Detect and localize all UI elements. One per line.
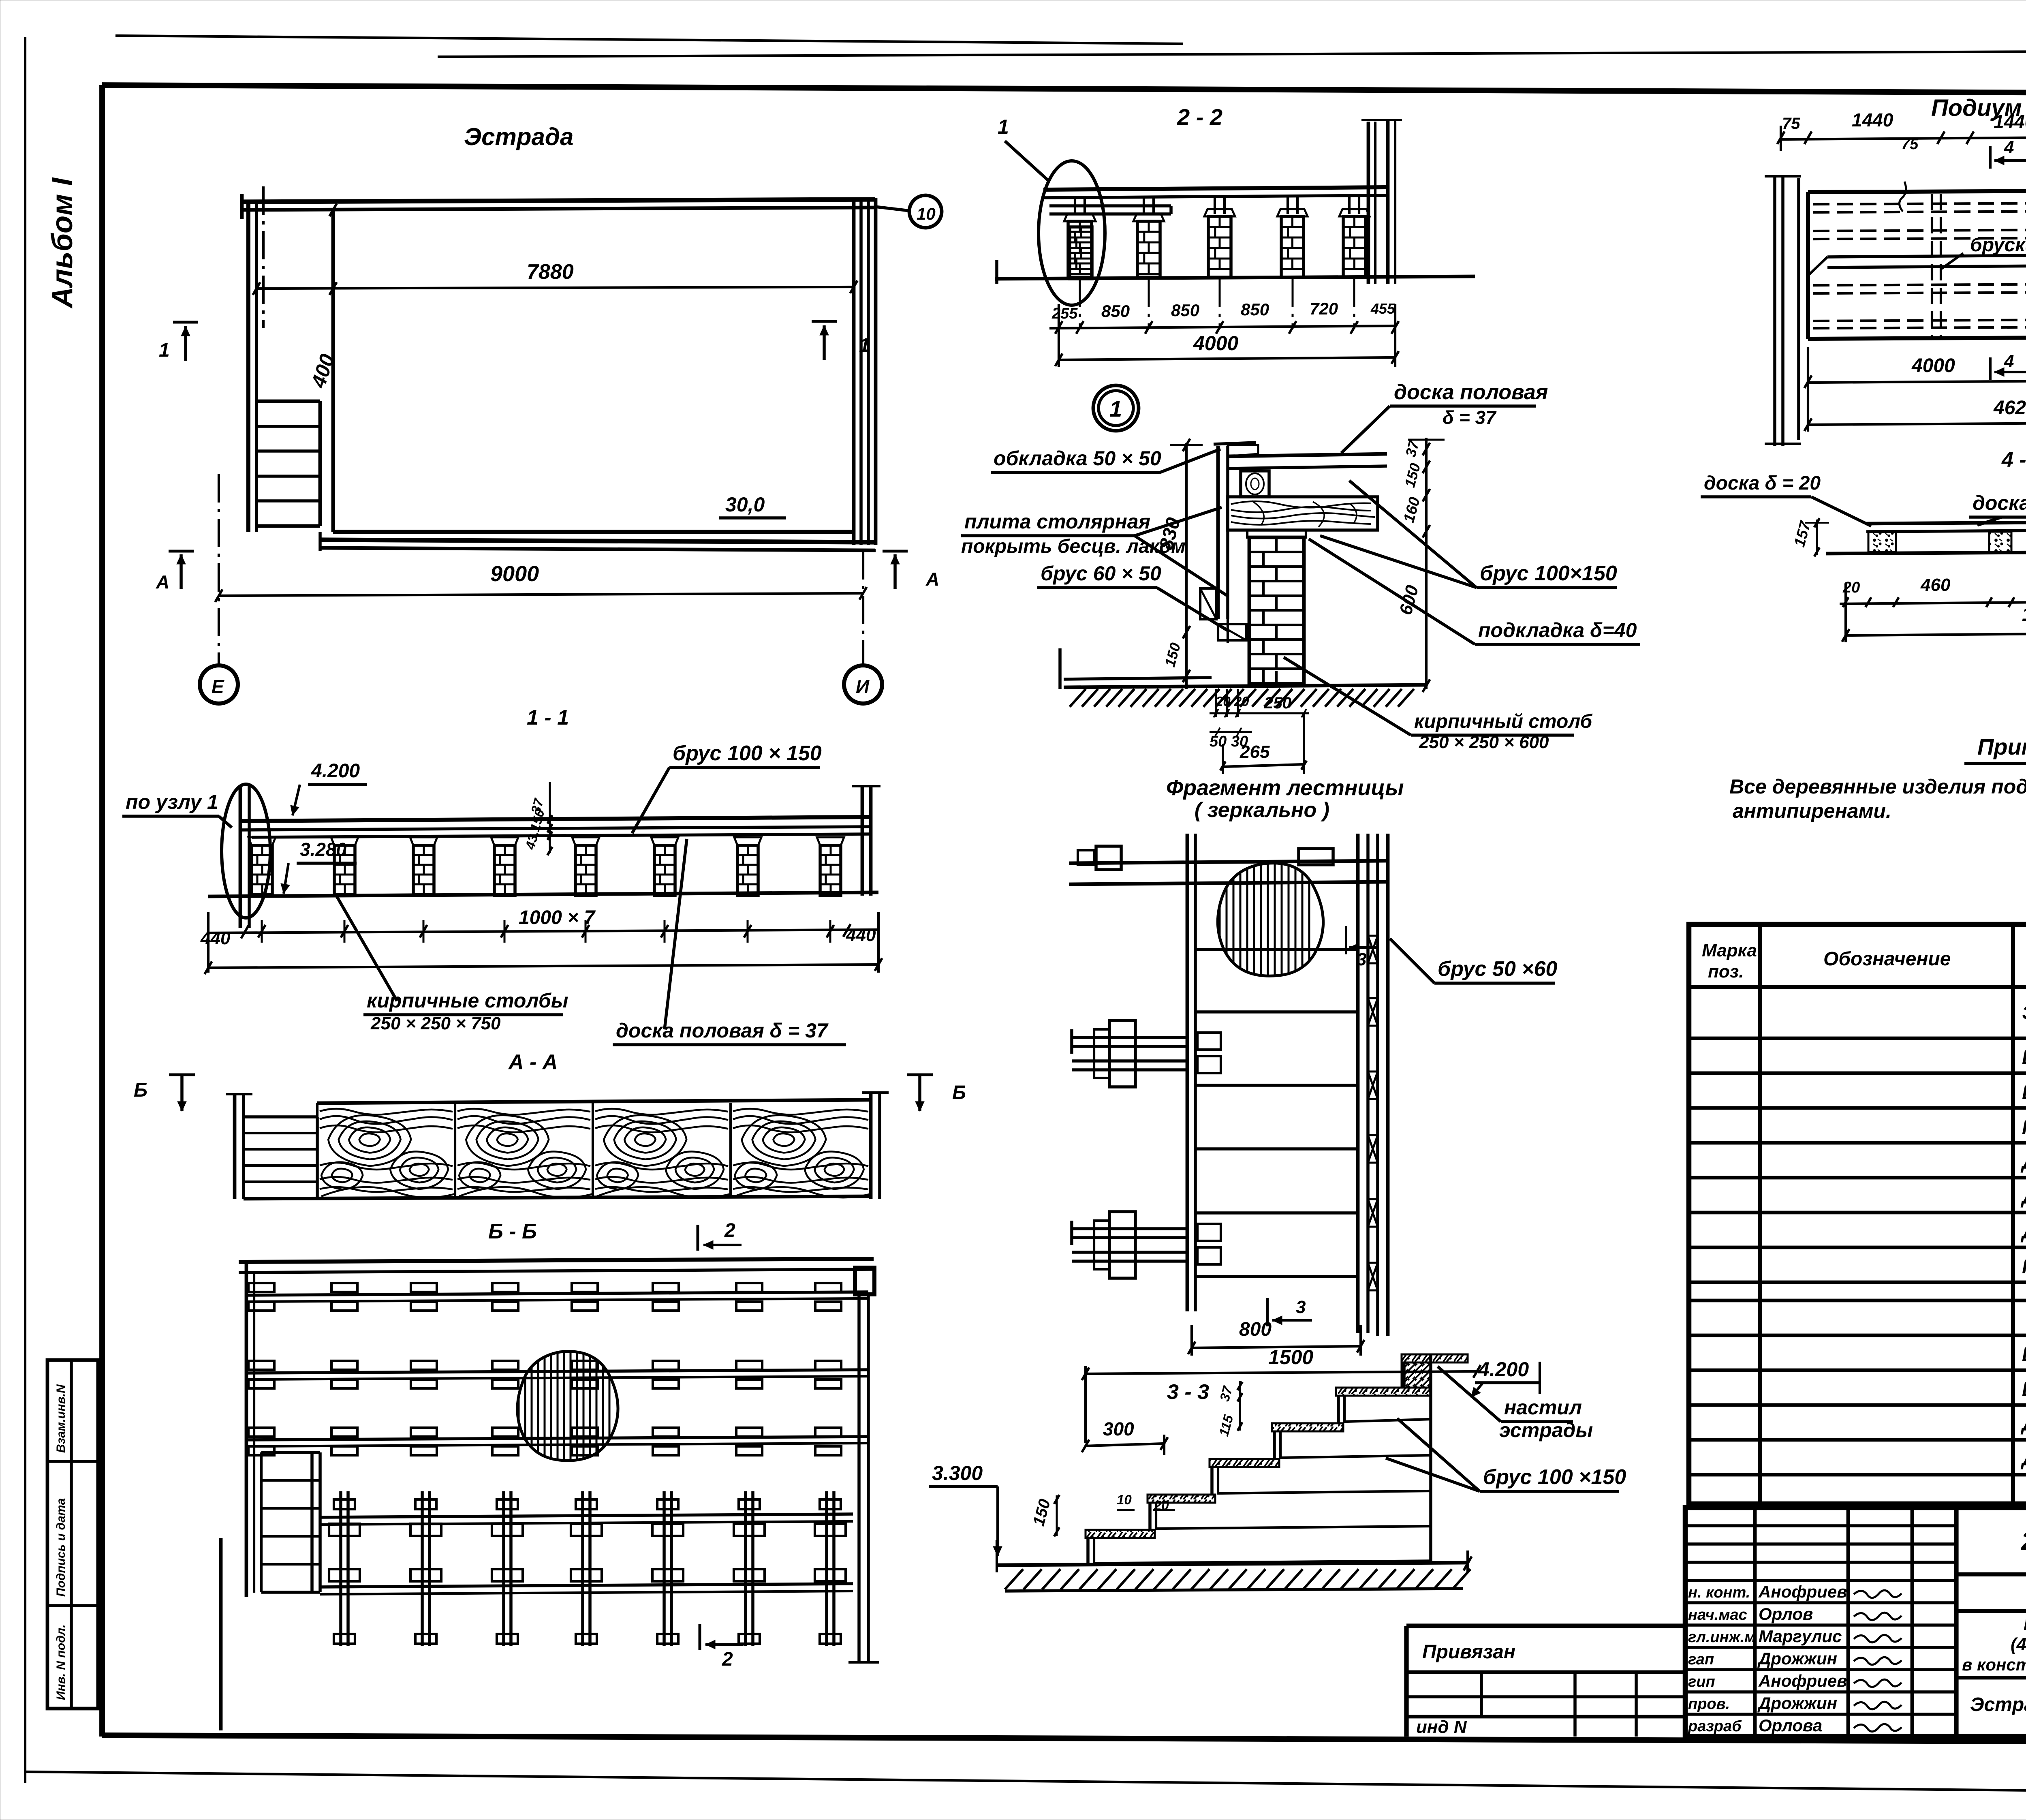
B-B left lower post [219, 1538, 223, 1730]
svg-text:Анофриев: Анофриев [1758, 1671, 1847, 1690]
svg-text:Эстрада актового зала: Эстрада актового зала [2022, 1002, 2026, 1024]
svg-text:4620: 4620 [1993, 397, 2026, 419]
svg-text:Обозначение: Обозначение [1823, 948, 1951, 970]
fragment top beam with bolts [1069, 861, 1388, 863]
4-4 dim 1750 [1846, 632, 2026, 635]
2-2 secondary beam left [1049, 204, 1171, 207]
brick pier [1070, 227, 1092, 279]
section mark 1 left [173, 321, 198, 324]
3-3 dim 300 [1086, 1444, 1164, 1446]
svg-text:850: 850 [1241, 300, 1269, 319]
title block signature columns [1753, 1508, 1757, 1737]
brick pier [1343, 216, 1366, 277]
svg-text:255: 255 [1051, 305, 1078, 322]
podium break marks top [1899, 182, 1906, 212]
svg-text:И: И [856, 676, 870, 697]
svg-text:1: 1 [998, 115, 1009, 138]
A-A wood band outline [317, 1100, 871, 1103]
svg-text:4 - 4: 4 - 4 [2001, 448, 2026, 472]
svg-text:Брус 75 × 100: Брус 75 × 100 [2022, 1379, 2026, 1400]
dim 9000 [219, 593, 863, 596]
svg-text:брус 50 ×60: брус 50 ×60 [1438, 957, 1557, 981]
A-A right post [869, 1093, 873, 1199]
svg-text:Фрагмент лестницы: Фрагмент лестницы [1166, 776, 1404, 800]
brick pier [1137, 221, 1160, 277]
node1 brick pillar [1249, 537, 1304, 686]
1-1 right post [861, 786, 864, 896]
svg-text:440: 440 [846, 925, 876, 945]
1-1 dim row meter ticks [208, 930, 878, 933]
svg-text:антипиренами.: антипиренами. [1733, 800, 1891, 822]
svg-text:4: 4 [2004, 351, 2014, 371]
svg-text:1: 1 [159, 340, 170, 361]
svg-text:10: 10 [917, 204, 936, 223]
svg-text:эстрады: эстрады [1499, 1419, 1593, 1441]
svg-text:А - А: А - А [508, 1050, 558, 1074]
3-3 right wall and top block [1429, 1354, 1432, 1561]
svg-text:( зеркально ): ( зеркально ) [1195, 798, 1329, 822]
outer thin sheet border [115, 36, 1183, 44]
podium dashed verticals [1931, 194, 1933, 338]
brick pier [1208, 216, 1231, 277]
svg-text:Орлова: Орлова [1759, 1716, 1822, 1735]
podium plan outline trapezoid [1808, 190, 2026, 192]
podium dim 4620 [1808, 422, 2026, 425]
fragment bottom 3 marker [1266, 1298, 1269, 1326]
svg-text:4.200: 4.200 [311, 760, 360, 782]
B-B right post top block [855, 1268, 874, 1294]
svg-text:настил: настил [1504, 1396, 1582, 1419]
svg-text:Инв. N подл.: Инв. N подл. [54, 1624, 68, 1700]
fragment treads [1195, 948, 1358, 951]
stage plan right column wall [852, 198, 856, 545]
svg-text:Эстрада актового зала.: Эстрада актового зала. [1970, 1694, 2026, 1715]
spec table header row line [1689, 985, 2026, 989]
brick pier [1281, 216, 1304, 277]
left wall axis dash-dot [262, 186, 265, 328]
svg-text:Альбом I: Альбом I [46, 177, 79, 309]
stage plan top edge double line [242, 199, 875, 202]
svg-text:брус 60 × 50: брус 60 × 50 [1041, 562, 1161, 585]
svg-text:гап: гап [1688, 1651, 1714, 1668]
svg-text:460: 460 [1920, 575, 1951, 595]
svg-text:1: 1 [859, 335, 870, 356]
svg-text:2 - 2: 2 - 2 [1177, 104, 1222, 130]
node1 small block with grain [1241, 471, 1269, 497]
A-A stairs side block [244, 1115, 317, 1119]
svg-text:по узлу 1: по узлу 1 [126, 791, 218, 813]
svg-text:н. конт.: н. конт. [1688, 1584, 1750, 1601]
svg-text:подкладка δ=40: подкладка δ=40 [1478, 619, 1637, 642]
svg-text:2: 2 [724, 1220, 735, 1241]
spec table outline [1689, 924, 2026, 1504]
fragment right stringers [1356, 834, 1360, 1333]
4-4 bottom line [1826, 551, 2026, 554]
svg-text:Примечание.: Примечание. [1977, 734, 2026, 759]
svg-text:Плита столярная: Плита столярная [2022, 1117, 2026, 1138]
B-B right wall double [857, 1294, 861, 1662]
svg-text:4000: 4000 [1911, 355, 1955, 376]
svg-text:850: 850 [1171, 301, 1199, 320]
svg-text:доска половая δ = 37: доска половая δ = 37 [1973, 492, 2026, 514]
1-1 node ellipse left [222, 784, 270, 918]
svg-text:Эстрада: Эстрада [464, 123, 573, 150]
svg-text:в конструкциях серии 1.020-1/8: в конструкциях серии 1.020-1/83 [1962, 1655, 2026, 1674]
3-3 ground with hatch [997, 1563, 1468, 1565]
svg-text:3.280: 3.280 [300, 839, 347, 860]
3-3 dims 115/37 rotated [1239, 1381, 1241, 1431]
svg-text:поз.: поз. [1708, 962, 1744, 982]
2-2 dim 4000 [1059, 357, 1395, 360]
section mark A left bottom [180, 554, 183, 589]
svg-text:А: А [925, 569, 939, 590]
B-B stairs block [261, 1451, 320, 1454]
1-1 ground line [208, 892, 878, 896]
left attribute boxes [47, 1360, 98, 1709]
1-1 overall dim row [208, 965, 878, 968]
brick pier [1068, 221, 1092, 277]
node 1 callout circle [1093, 385, 1139, 431]
svg-text:Е: Е [212, 676, 224, 697]
svg-text:Все деревянные изделия: Все деревянные изделия подлежат пропитке [1729, 775, 2026, 798]
4-4 dim row 20/460/480/410 [1840, 601, 2026, 604]
svg-text:440: 440 [200, 928, 231, 948]
node1 plita wood grain [1228, 497, 1378, 530]
svg-text:3 - 3: 3 - 3 [1167, 1380, 1209, 1404]
svg-text:плита столярная: плита столярная [964, 510, 1150, 533]
svg-text:Орлов: Орлов [1759, 1604, 1813, 1623]
svg-text:кирпичный столб: кирпичный столб [1414, 711, 1593, 732]
podium top dim chain [1781, 136, 2026, 139]
2-2 wall right [1367, 122, 1370, 284]
2-2 posts above piers [1074, 197, 1076, 214]
svg-text:75: 75 [1901, 136, 1919, 153]
B-B vertical posts with bolts [339, 1491, 342, 1646]
title block upper empty rows [1685, 1524, 1956, 1527]
podium bottom dims 4000 620 [1808, 380, 2026, 383]
svg-text:30,0: 30,0 [725, 493, 765, 516]
svg-text:850: 850 [1101, 302, 1130, 321]
podium solid band bruски [1827, 255, 2026, 257]
4-4 deck top double line [1866, 521, 2026, 524]
1-1 rotated dims 37 150 [549, 782, 551, 853]
svg-text:Дрожжин: Дрожжин [1757, 1694, 1837, 1713]
svg-text:Дрожжин: Дрожжин [1757, 1649, 1837, 1668]
svg-text:доска δ = 20: доска δ = 20 [1704, 473, 1821, 494]
svg-text:3: 3 [1296, 1297, 1306, 1317]
node1 podkladka [1247, 530, 1306, 537]
marker 2 top [697, 1225, 699, 1251]
svg-text:Б - Б: Б - Б [488, 1220, 537, 1243]
svg-text:265: 265 [1240, 742, 1270, 762]
svg-text:720: 720 [1310, 299, 1338, 318]
svg-text:доска половая δ = 37: доска половая δ = 37 [616, 1019, 829, 1042]
svg-text:Подпись и дата: Подпись и дата [54, 1498, 68, 1597]
inner thick frame [102, 85, 2026, 94]
section mark A right bottom [893, 554, 897, 589]
svg-text:доска половая: доска половая [1394, 381, 1548, 404]
3-3 risers [1086, 1538, 1090, 1563]
fragment central stringer [1186, 834, 1189, 1311]
A-A left post [233, 1094, 237, 1199]
svg-text:222 – 1 – 467. 86: 222 – 1 – 467. 86 [2021, 1527, 2026, 1556]
svg-text:4.200: 4.200 [1478, 1358, 1529, 1381]
svg-text:инд N: инд N [1416, 1717, 1467, 1737]
svg-text:1440: 1440 [1994, 111, 2026, 132]
axis circle 10 top right [909, 195, 942, 228]
stage plan left wall [246, 203, 250, 532]
svg-text:пров.: пров. [1688, 1696, 1730, 1713]
4-4 brusok blocks speckled [1868, 532, 1896, 552]
node1 vertical board [1216, 446, 1220, 619]
svg-text:250 × 250 × 600: 250 × 250 × 600 [1419, 732, 1549, 752]
svg-text:3: 3 [1357, 950, 1366, 969]
2-2 top beam double line [1043, 187, 1388, 190]
A-A wood grain panels [316, 1103, 318, 1196]
svg-text:7880: 7880 [527, 260, 574, 284]
svg-text:1440: 1440 [1852, 109, 1893, 130]
svg-text:гл.инж.м: гл.инж.м [1688, 1629, 1756, 1646]
svg-text:Брус 100 × 100: Брус 100 × 100 [2022, 1344, 2026, 1365]
privyazan box [1406, 1623, 1685, 1628]
svg-text:250 × 250 × 750: 250 × 250 × 750 [370, 1014, 501, 1033]
svg-text:4: 4 [2004, 137, 2014, 157]
spec table verticals [1758, 924, 1762, 1504]
svg-text:250: 250 [1264, 694, 1291, 712]
svg-text:Школа на 15 классов: Школа на 15 классов [2024, 1614, 2026, 1634]
svg-text:1000 × 7: 1000 × 7 [519, 907, 596, 928]
B-B left wall [245, 1262, 248, 1597]
svg-text:разраб: разраб [1688, 1718, 1742, 1735]
svg-text:1 - 1: 1 - 1 [527, 706, 569, 729]
svg-text:брус 100 × 150: брус 100 × 150 [673, 742, 822, 765]
svg-text:2: 2 [722, 1649, 733, 1670]
spec table row lines [1689, 1037, 2026, 1040]
svg-text:брус 100×150: брус 100×150 [1480, 562, 1617, 585]
3-3 dim 1500 [1086, 1371, 1477, 1374]
axis E dashdot and circle [218, 474, 220, 664]
stage plan stairs [256, 400, 320, 403]
svg-text:(486 - 504 учащихся): (486 - 504 учащихся) [2011, 1634, 2026, 1654]
B-B top edge double line [239, 1259, 874, 1262]
svg-text:1500: 1500 [1268, 1346, 1313, 1369]
3-3 step body horizontals [1094, 1561, 1431, 1563]
fragment left beam 1 [1072, 1036, 1187, 1039]
1-1 brick piers row [248, 837, 276, 845]
svg-text:455: 455 [1370, 300, 1396, 317]
B-B joist rows with clips [246, 1292, 868, 1295]
section mark 1 right [812, 320, 837, 323]
podium dashed joists horizontal [1813, 203, 2026, 204]
svg-text:брус 100 ×150: брус 100 ×150 [1483, 1465, 1626, 1489]
svg-text:Брус 50 ×50: Брус 50 ×50 [2022, 1082, 2026, 1104]
svg-text:Взам.инв.N: Взам.инв.N [54, 1384, 68, 1453]
stage plan inner line [331, 209, 335, 532]
fragment top 3 marker [1345, 926, 1347, 954]
svg-text:Анофриев: Анофриев [1758, 1582, 1847, 1601]
svg-text:300: 300 [1103, 1418, 1134, 1439]
fragment dim 800 [1192, 1346, 1361, 1348]
svg-text:обкладка 50 × 50: обкладка 50 × 50 [994, 447, 1161, 470]
2-2 axis lines below piers [1079, 279, 1081, 329]
node1 left dim 830/150 [1185, 443, 1188, 689]
1-1 deck double line [240, 817, 871, 821]
fragment tread bolts and pads [1368, 936, 1378, 963]
1-1 left post [239, 786, 242, 928]
2-2 ground line [995, 276, 1475, 279]
node ellipse [1039, 161, 1105, 305]
svg-text:9000: 9000 [490, 562, 539, 586]
B-B lower rails [320, 1514, 853, 1517]
svg-text:Привязан: Привязан [1422, 1641, 1515, 1663]
node1 lower bracket bruски [1200, 588, 1216, 619]
4-4 left dim 157 [1816, 520, 1818, 555]
node1 floor double line [1228, 454, 1387, 456]
svg-text:нач.мас: нач.мас [1688, 1606, 1747, 1623]
svg-text:Брус 100 ×150: Брус 100 ×150 [2022, 1047, 2026, 1068]
svg-text:А: А [156, 571, 169, 592]
node1 floor line left and ground [1064, 678, 1212, 679]
dim 7880 [256, 287, 854, 289]
svg-text:Маргулис: Маргулис [1759, 1627, 1842, 1646]
svg-text:δ = 37: δ = 37 [1443, 407, 1497, 428]
svg-text:Б: Б [134, 1080, 147, 1101]
marker 2 bottom [699, 1624, 701, 1650]
svg-text:1750: 1750 [2022, 604, 2026, 625]
svg-text:Б: Б [952, 1082, 966, 1104]
3-3 tread strips [1086, 1530, 1155, 1538]
3-3 steps [1402, 1354, 1468, 1362]
svg-text:75: 75 [1782, 115, 1800, 133]
3-3 dim 150 rotated [1056, 1495, 1058, 1536]
svg-text:20 20: 20 20 [1215, 694, 1249, 709]
svg-text:1: 1 [1109, 396, 1122, 421]
fragment left beam 2 [1072, 1227, 1187, 1230]
axis I dashdot and circle [862, 551, 864, 664]
title block outline [1685, 1508, 2026, 1737]
svg-text:800: 800 [1239, 1319, 1272, 1340]
svg-text:4000: 4000 [1193, 332, 1238, 355]
svg-text:Кирпич: Кирпич [2022, 1256, 2026, 1278]
node1 right dim chain [1425, 438, 1428, 689]
podium section marker 4 top [1989, 146, 1992, 169]
svg-text:бруски 75 × 100: бруски 75 × 100 [1970, 234, 2026, 256]
stage plan bottom edges [333, 530, 854, 534]
svg-text:Марка: Марка [1702, 941, 1757, 960]
podium marker 4 bottom [1989, 357, 1992, 380]
2-2 dim row 255/850/850/850/720/455 [1049, 326, 1395, 328]
podium left tall element [1773, 175, 1776, 446]
svg-text:3.300: 3.300 [932, 1462, 983, 1484]
svg-text:10: 10 [1117, 1492, 1132, 1507]
svg-text:гип: гип [1688, 1673, 1715, 1690]
